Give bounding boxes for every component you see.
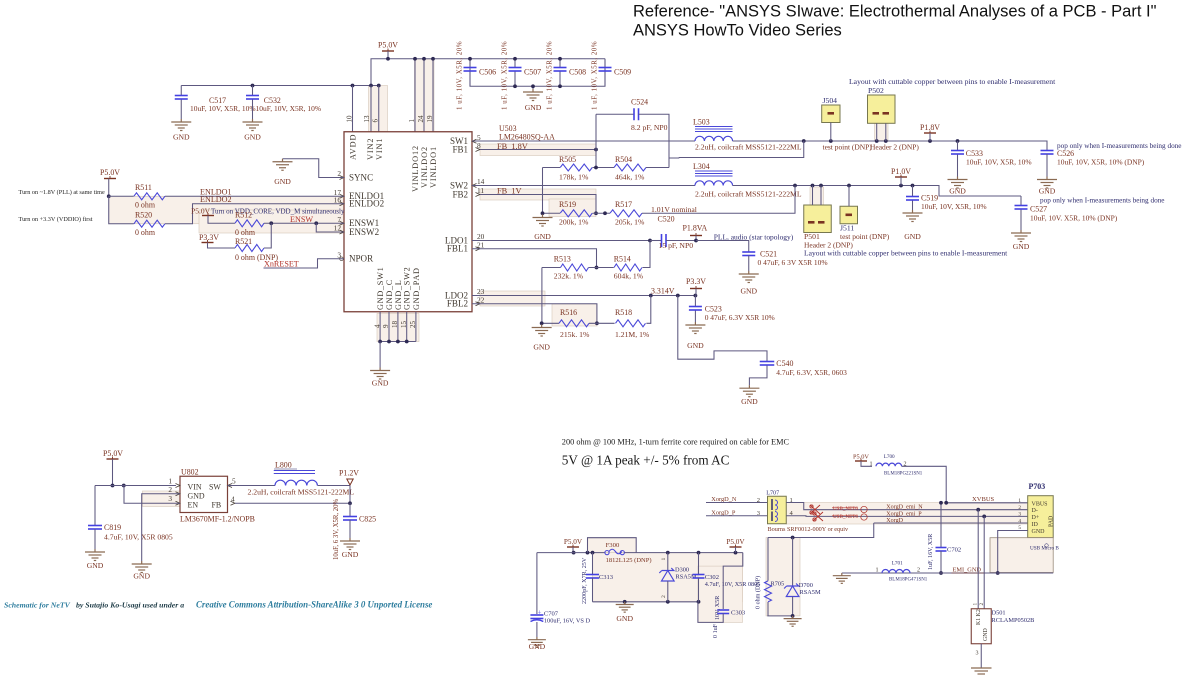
ground U802 — [132, 561, 152, 573]
svg-text:10uF, 10V, X5R, 10%: 10uF, 10V, X5R, 10% — [966, 158, 1032, 167]
svg-text:1: 1 — [875, 568, 878, 574]
ground R519 — [533, 215, 553, 227]
wire SW1 rail — [472, 140, 695, 142]
svg-text:10uF, 10V, X5R, 10%10uF, 10V,: 10uF, 10V, X5R, 10%10uF, 10V, X5R, 10% — [190, 104, 321, 113]
svg-text:VINLDO2: VINLDO2 — [420, 146, 429, 188]
resistor R511 — [109, 195, 134, 197]
svg-text:1 uF, 10V, X5R, 20%: 1 uF, 10V, X5R, 20% — [592, 41, 599, 110]
capacitor C507 — [514, 59, 516, 67]
svg-text:VIN2: VIN2 — [366, 138, 375, 160]
wire AVDD pin10 drop — [352, 86, 354, 132]
svg-text:464k, 1%: 464k, 1% — [615, 173, 645, 182]
inductor L800 — [275, 480, 317, 485]
svg-text:C302: C302 — [705, 574, 719, 581]
wire XorgD_emi_P — [786, 515, 1027, 518]
wire XorgD_P — [706, 515, 768, 517]
svg-text:1: 1 — [661, 558, 667, 561]
svg-text:ANSYS HowTo Video Series: ANSYS HowTo Video Series — [633, 22, 842, 40]
svg-text:232k. 1%: 232k. 1% — [554, 272, 584, 281]
svg-text:RCLAMP0502B: RCLAMP0502B — [992, 617, 1035, 624]
svg-text:200k, 1%: 200k, 1% — [559, 218, 589, 227]
header P501 — [804, 205, 832, 233]
svg-text:P5.0V: P5.0V — [378, 41, 398, 50]
capacitor C519 — [912, 186, 914, 197]
svg-text:RSA5M: RSA5M — [800, 589, 821, 596]
wire VIN2 pin13 drop — [370, 86, 372, 132]
svg-text:100uF, 16V, VS D: 100uF, 16V, VS D — [544, 618, 591, 625]
svg-text:+: + — [538, 610, 542, 617]
svg-text:SW: SW — [209, 483, 221, 492]
pin arrows left U503 — [340, 176, 345, 180]
capacitor C302 — [698, 553, 700, 574]
resistor R705 — [767, 538, 769, 581]
svg-text:3: 3 — [337, 250, 341, 259]
svg-text:R504: R504 — [615, 155, 632, 164]
svg-text:Turn on +3.3V (VDDIO) first: Turn on +3.3V (VDDIO) first — [19, 216, 93, 223]
wire P1.8V rail — [733, 141, 1048, 151]
svg-text:LM3670MF-1.2/NOPB: LM3670MF-1.2/NOPB — [180, 515, 255, 524]
svg-text:XVBUS: XVBUS — [972, 496, 995, 503]
svg-text:4: 4 — [1018, 518, 1021, 524]
resistor R521 — [208, 243, 236, 249]
svg-text:8.2 pF, NP0: 8.2 pF, NP0 — [631, 123, 668, 132]
svg-text:GND: GND — [687, 341, 704, 350]
wire XorgD_emi_N — [786, 503, 1027, 510]
svg-text:LM26480SQ-AA: LM26480SQ-AA — [499, 133, 555, 142]
capacitor C509 — [604, 59, 606, 67]
svg-text:215k. 1%: 215k. 1% — [560, 330, 590, 339]
svg-text:GND: GND — [133, 572, 150, 581]
wire P1.2V net — [318, 485, 351, 487]
wire 5V net after fuse — [624, 552, 742, 554]
svg-text:L700: L700 — [884, 454, 895, 460]
wire R513 to gnd node — [541, 268, 543, 324]
svg-text:R705: R705 — [771, 581, 785, 588]
svg-text:GND: GND — [616, 614, 633, 623]
svg-text:VBUS: VBUS — [1032, 501, 1048, 507]
svg-text:1: 1 — [973, 603, 979, 606]
svg-text:2200pF, X7R, 25V: 2200pF, X7R, 25V — [582, 557, 588, 604]
wire 5V net — [537, 552, 605, 554]
svg-text:14: 14 — [477, 177, 485, 186]
ground D700 — [784, 616, 802, 626]
svg-text:GND: GND — [983, 628, 989, 641]
svg-text:3: 3 — [168, 494, 172, 503]
svg-text:L800: L800 — [275, 461, 292, 470]
svg-text:GND: GND — [949, 187, 966, 196]
svg-text:C524: C524 — [631, 98, 648, 107]
svg-text:15 pF, NP0: 15 pF, NP0 — [659, 241, 694, 250]
capacitor C819 — [94, 486, 96, 526]
wire U802 en pin — [124, 486, 180, 504]
wire P1.0V rail — [733, 186, 1022, 197]
svg-text:19: 19 — [426, 115, 434, 123]
wire VINLDO2 drop — [423, 59, 425, 132]
svg-text:GND: GND — [533, 343, 550, 352]
wire VINLDO12 drop — [414, 59, 416, 132]
svg-text:0 47uF, 6.3V X5R 10%: 0 47uF, 6.3V X5R 10% — [705, 313, 775, 322]
ground C540 — [739, 385, 759, 397]
svg-text:GND: GND — [372, 379, 389, 388]
wire AVDD rail — [181, 85, 379, 87]
net highlight P501 pins — [810, 187, 824, 205]
net highlight 5V fuse area — [593, 553, 743, 602]
power P1.2V flag — [347, 479, 353, 485]
ground C825 — [340, 538, 360, 550]
svg-text:178k, 1%: 178k, 1% — [559, 173, 589, 182]
svg-text:R511: R511 — [135, 183, 152, 192]
svg-text:L707: L707 — [766, 491, 779, 497]
wire XorgD_N — [706, 502, 768, 504]
net highlight fuse bypass — [588, 538, 637, 553]
net tie labels USB_NETS — [833, 506, 858, 520]
svg-text:L701: L701 — [892, 561, 903, 567]
svg-text:1: 1 — [1018, 498, 1021, 504]
wire P5.0V bus — [371, 59, 605, 86]
svg-text:Reference- "ANSYS SIwave: Elec: Reference- "ANSYS SIwave: Electrothermal… — [633, 3, 1157, 21]
svg-text:P1.8VA: P1.8VA — [683, 224, 708, 233]
svg-text:by Sutajio Ko-Usagi used under: by Sutajio Ko-Usagi used under a — [76, 601, 184, 610]
svg-text:Creative Commons Attribution-S: Creative Commons Attribution-ShareAlike … — [196, 600, 432, 610]
svg-text:K1 K2: K1 K2 — [976, 609, 982, 625]
wire U802 gnd pin — [142, 494, 180, 561]
svg-text:GND_SW2: GND_SW2 — [403, 267, 412, 310]
wire XorgD net — [874, 522, 1028, 524]
svg-text:XnRESET: XnRESET — [264, 260, 299, 269]
svg-text:Turn on VDD_CORE, VDD_M simult: Turn on VDD_CORE, VDD_M simultaneously — [211, 207, 345, 215]
resistor R505 — [543, 167, 561, 169]
svg-text:D-: D- — [1032, 508, 1038, 514]
svg-text:D300: D300 — [675, 567, 689, 574]
svg-text:GND: GND — [342, 550, 359, 559]
svg-text:R519: R519 — [559, 200, 576, 209]
svg-text:C509: C509 — [614, 68, 631, 77]
svg-text:pop only when I-measurements b: pop only when I-measurements being done — [1040, 197, 1165, 205]
svg-text:4.7uF, 10V, X5R 0805: 4.7uF, 10V, X5R 0805 — [705, 581, 761, 588]
ground C523 — [685, 322, 705, 334]
svg-text:VIN1: VIN1 — [375, 138, 384, 160]
svg-text:P3.3V: P3.3V — [686, 277, 706, 286]
svg-text:7: 7 — [337, 215, 341, 224]
capacitor C524 — [596, 113, 634, 115]
svg-text:6: 6 — [372, 119, 380, 123]
svg-text:GND_L: GND_L — [394, 279, 403, 310]
wire R705 D700 gnd — [767, 615, 792, 617]
wire VIN net — [95, 485, 176, 487]
svg-text:P5.0V: P5.0V — [103, 449, 123, 458]
svg-text:1 uF, 10V, X5R, 20%: 1 uF, 10V, X5R, 20% — [502, 41, 509, 110]
capacitor C533 — [957, 141, 959, 151]
svg-text:4.7uF, 6.3V, X5R, 0603: 4.7uF, 6.3V, X5R, 0603 — [776, 368, 847, 377]
svg-text:GND: GND — [1039, 187, 1056, 196]
svg-text:2: 2 — [168, 485, 172, 494]
svg-text:XorgD_emi_N: XorgD_emi_N — [886, 505, 923, 511]
svg-text:0 ohm (DNP): 0 ohm (DNP) — [755, 576, 762, 609]
svg-text:Layout with cuttable copper be: Layout with cuttable copper between pins… — [804, 249, 1008, 258]
ground EMI_GND left — [833, 573, 851, 583]
svg-text:XorgD_emi_P: XorgD_emi_P — [886, 511, 922, 517]
svg-text:1.21M, 1%: 1.21M, 1% — [615, 330, 650, 339]
net highlight IC gnd pins — [377, 314, 419, 342]
wire FB1 net — [480, 149, 596, 151]
svg-text:pop only when I-measurements b: pop only when I-measurements being done — [1057, 142, 1182, 150]
svg-text:1: 1 — [408, 119, 416, 123]
svg-text:10uF, 6 3V, X5R, 20%: 10uF, 6 3V, X5R, 20% — [333, 498, 340, 560]
svg-text:test point (DNP): test point (DNP) — [840, 232, 890, 241]
wire XVBUS — [902, 466, 1028, 503]
net highlight P502 pins — [875, 124, 889, 141]
ground C526 — [1037, 177, 1057, 189]
wire P703 gnd pin — [998, 531, 1028, 574]
svg-text:GND: GND — [244, 133, 261, 142]
wire LDO2 net — [472, 295, 695, 297]
wire NPOR net — [264, 259, 345, 268]
svg-text:P3.3V: P3.3V — [199, 233, 219, 242]
svg-text:test point (DNP): test point (DNP) — [823, 143, 873, 152]
svg-text:0 47uF, 6 3V X5R 10%: 0 47uF, 6 3V X5R 10% — [758, 258, 828, 267]
svg-text:D700: D700 — [799, 582, 813, 589]
ground C527 — [1011, 230, 1031, 242]
svg-text:C825: C825 — [359, 515, 376, 524]
svg-text:13: 13 — [363, 115, 371, 123]
test point J511 — [840, 206, 858, 224]
svg-text:200 ohm @ 100 MHz, 1-turn ferr: 200 ohm @ 100 MHz, 1-turn ferrite core r… — [562, 438, 790, 447]
svg-text:5V @ 1A peak +/- 5% from AC: 5V @ 1A peak +/- 5% from AC — [562, 453, 730, 468]
svg-text:3: 3 — [1018, 512, 1021, 518]
svg-text:2.2uH, coilcraft MSS5121-222ML: 2.2uH, coilcraft MSS5121-222ML — [248, 488, 355, 497]
capacitor C702 — [940, 503, 942, 547]
svg-text:2: 2 — [337, 169, 341, 178]
net highlight VINLDO — [415, 59, 435, 132]
svg-text:SYNC: SYNC — [349, 172, 373, 182]
net highlight FB_1V — [480, 189, 596, 200]
svg-text:GND: GND — [534, 232, 551, 241]
svg-text:USB_NET6: USB_NET6 — [833, 514, 858, 520]
ground C532 — [243, 119, 263, 131]
svg-text:C532: C532 — [264, 96, 281, 105]
ground IC — [370, 368, 390, 380]
capacitor C523 — [694, 296, 696, 307]
svg-text:Turn on ~1.8V (PLL) at same ti: Turn on ~1.8V (PLL) at same time — [19, 189, 105, 196]
svg-text:GND: GND — [529, 642, 546, 651]
svg-text:R505: R505 — [559, 155, 576, 164]
ground C533 — [948, 177, 968, 189]
svg-text:3: 3 — [975, 651, 978, 657]
ground C707 — [528, 637, 546, 647]
capacitor C527 — [1020, 196, 1022, 206]
svg-text:VINLDO1: VINLDO1 — [429, 146, 438, 188]
svg-text:EN: EN — [188, 501, 199, 510]
title text — [633, 3, 1157, 40]
svg-text:C506: C506 — [479, 68, 496, 77]
svg-text:GND: GND — [1032, 529, 1046, 535]
capacitor C540 — [678, 296, 767, 362]
svg-text:C702: C702 — [947, 547, 961, 554]
pin arrows right U503 — [472, 139, 477, 143]
svg-text:1uF, 16V, X5R: 1uF, 16V, X5R — [928, 533, 934, 570]
svg-text:GND: GND — [904, 232, 921, 241]
svg-text:10: 10 — [345, 115, 353, 123]
IC U802 LM3670 body — [180, 476, 228, 512]
resistor R513 — [542, 267, 561, 269]
ground C819 — [85, 549, 105, 561]
diode D300 — [667, 553, 669, 570]
attribution text — [4, 600, 432, 610]
svg-text:C508: C508 — [569, 68, 586, 77]
ground SYNC — [273, 159, 293, 171]
svg-text:USB_NET6: USB_NET6 — [833, 506, 858, 512]
svg-text:24: 24 — [417, 115, 425, 123]
svg-text:BLM18PG221SN1: BLM18PG221SN1 — [884, 472, 923, 477]
capacitor C506 — [469, 59, 471, 67]
capacitor C508 — [559, 59, 561, 67]
svg-text:FB1: FB1 — [452, 144, 468, 154]
svg-text:Layout with cuttable copper be: Layout with cuttable copper between pins… — [849, 77, 1056, 86]
ground cap bank — [532, 86, 534, 89]
wire gnd rail usb — [593, 601, 699, 603]
svg-text:C520: C520 — [658, 215, 675, 224]
svg-text:NPOR: NPOR — [349, 254, 374, 264]
svg-text:VINLDO12: VINLDO12 — [411, 145, 420, 192]
svg-text:10uF, 10V, X5R, 10%: 10uF, 10V, X5R, 10% — [921, 202, 987, 211]
svg-text:GND: GND — [188, 492, 205, 501]
svg-text:C303: C303 — [731, 610, 746, 617]
net highlight R705 D700 — [766, 538, 800, 616]
svg-text:EMI_GND: EMI_GND — [953, 567, 982, 574]
svg-text:AVDD: AVDD — [349, 134, 358, 160]
resistor R512 — [235, 220, 264, 227]
capacitor C707 — [536, 553, 538, 614]
svg-text:2: 2 — [661, 595, 667, 598]
svg-text:L304: L304 — [693, 162, 710, 171]
capacitor C313 — [592, 553, 594, 574]
svg-text:D+: D+ — [1032, 515, 1040, 521]
resistor R520 — [109, 196, 134, 224]
net highlight R519 — [549, 199, 596, 217]
ground R516 — [532, 325, 552, 337]
wire VINLDO1 drop — [432, 59, 434, 132]
capacitor C303 — [723, 553, 743, 609]
wire SW net — [228, 485, 276, 487]
svg-text:FB2: FB2 — [452, 189, 468, 199]
svg-text:D501: D501 — [992, 610, 1006, 617]
capacitor C521 — [696, 241, 749, 252]
diode D700 — [792, 538, 794, 586]
svg-text:ENSW: ENSW — [290, 215, 313, 224]
wire SW2 rail — [472, 185, 695, 187]
svg-text:10uF, 10V, X5R, 10% (DNP): 10uF, 10V, X5R, 10% (DNP) — [1057, 158, 1145, 167]
svg-text:VIN: VIN — [188, 483, 202, 492]
wire FBL2 net — [472, 304, 597, 324]
svg-text:2: 2 — [979, 603, 985, 606]
net highlight usb emi wires — [786, 503, 1028, 525]
ground C519 — [903, 210, 923, 222]
svg-text:L503: L503 — [693, 118, 710, 127]
svg-text:R518: R518 — [615, 308, 632, 317]
common-mode choke L707 — [768, 496, 787, 524]
capacitor C526 — [1041, 151, 1054, 155]
ground usb rail — [616, 602, 634, 612]
wire FB2 net — [480, 195, 596, 214]
svg-text:GND_C: GND_C — [385, 279, 394, 310]
wire fuse bypass — [588, 538, 637, 553]
op-amp U503 LM26480SQ-AA body — [344, 132, 472, 312]
svg-text:R517: R517 — [615, 200, 632, 209]
svg-text:R513: R513 — [554, 255, 571, 264]
svg-text:PAD: PAD — [1049, 516, 1055, 527]
svg-text:C540: C540 — [776, 359, 793, 368]
inductor L503 — [695, 136, 733, 141]
net highlight VIN1 — [369, 86, 388, 133]
resistor R517 — [593, 212, 611, 214]
net highlight R516 — [552, 304, 597, 326]
svg-text:Header 2 (DNP): Header 2 (DNP) — [870, 143, 919, 152]
svg-text:Schematic for NeTV: Schematic for NeTV — [4, 601, 71, 610]
capacitor C532 — [252, 86, 254, 96]
wire FB1 to P1.8V — [669, 157, 679, 160]
capacitor C517 — [180, 86, 182, 96]
svg-text:GND: GND — [173, 133, 190, 142]
svg-text:2: 2 — [917, 568, 920, 574]
ground C517 — [171, 119, 191, 131]
svg-text:0 ohm: 0 ohm — [135, 201, 156, 210]
svg-text:1 uF, 10V, X5R, 20%: 1 uF, 10V, X5R, 20% — [547, 41, 554, 110]
wire IC ground pins — [379, 312, 381, 342]
svg-text:C707: C707 — [544, 611, 559, 618]
svg-text:R520: R520 — [135, 211, 152, 220]
svg-text:ENLDO2: ENLDO2 — [200, 195, 232, 204]
wire D501 gnd pin — [980, 644, 982, 668]
svg-text:2.2uH, coilcraft MSS5121-222ML: 2.2uH, coilcraft MSS5121-222ML — [695, 190, 802, 199]
net highlight U802 pins — [143, 491, 181, 507]
wire FB net U802 — [235, 486, 350, 504]
svg-text:1812L125 (DNP): 1812L125 (DNP) — [606, 557, 652, 564]
resistor R516 — [542, 322, 559, 324]
svg-text:GND_PAD: GND_PAD — [412, 267, 421, 310]
svg-text:GND: GND — [87, 561, 104, 570]
resistor R514 — [589, 267, 614, 269]
test point J504 — [822, 105, 840, 123]
svg-text:R514: R514 — [614, 255, 631, 264]
net highlight ENLDO nets — [109, 196, 344, 224]
resistor R519 — [543, 212, 561, 214]
svg-text:FB: FB — [212, 501, 222, 510]
svg-text:3.314V: 3.314V — [651, 287, 675, 296]
svg-text:F300: F300 — [606, 542, 620, 549]
svg-text:BLM18PG471SN1: BLM18PG471SN1 — [889, 578, 928, 583]
svg-text:FBL1: FBL1 — [447, 244, 468, 254]
svg-text:ENSW2: ENSW2 — [349, 227, 380, 237]
net highlight ENSW net — [199, 210, 344, 233]
svg-text:C507: C507 — [524, 68, 541, 77]
resistor R504 — [593, 167, 615, 169]
ground D501 — [971, 668, 992, 674]
wire cap bank bottom rail — [470, 59, 605, 87]
wire VIN1 pin6 drop — [378, 86, 380, 132]
svg-text:R521: R521 — [235, 237, 252, 246]
svg-text:J504: J504 — [823, 96, 838, 105]
svg-text:Bourns SRF0012-000Y or equiv: Bourns SRF0012-000Y or equiv — [768, 526, 849, 533]
svg-text:C819: C819 — [104, 523, 121, 532]
svg-text:0 ohm: 0 ohm — [235, 228, 256, 237]
wire R505 to gnd node — [542, 168, 544, 214]
pin numbers P703 — [1018, 498, 1021, 531]
svg-text:2: 2 — [1018, 505, 1021, 511]
net highlight C303 branch — [698, 566, 743, 622]
wire ENSW2 — [316, 223, 344, 232]
svg-text:P703: P703 — [1029, 482, 1046, 491]
svg-text:0 ohm: 0 ohm — [135, 228, 156, 237]
